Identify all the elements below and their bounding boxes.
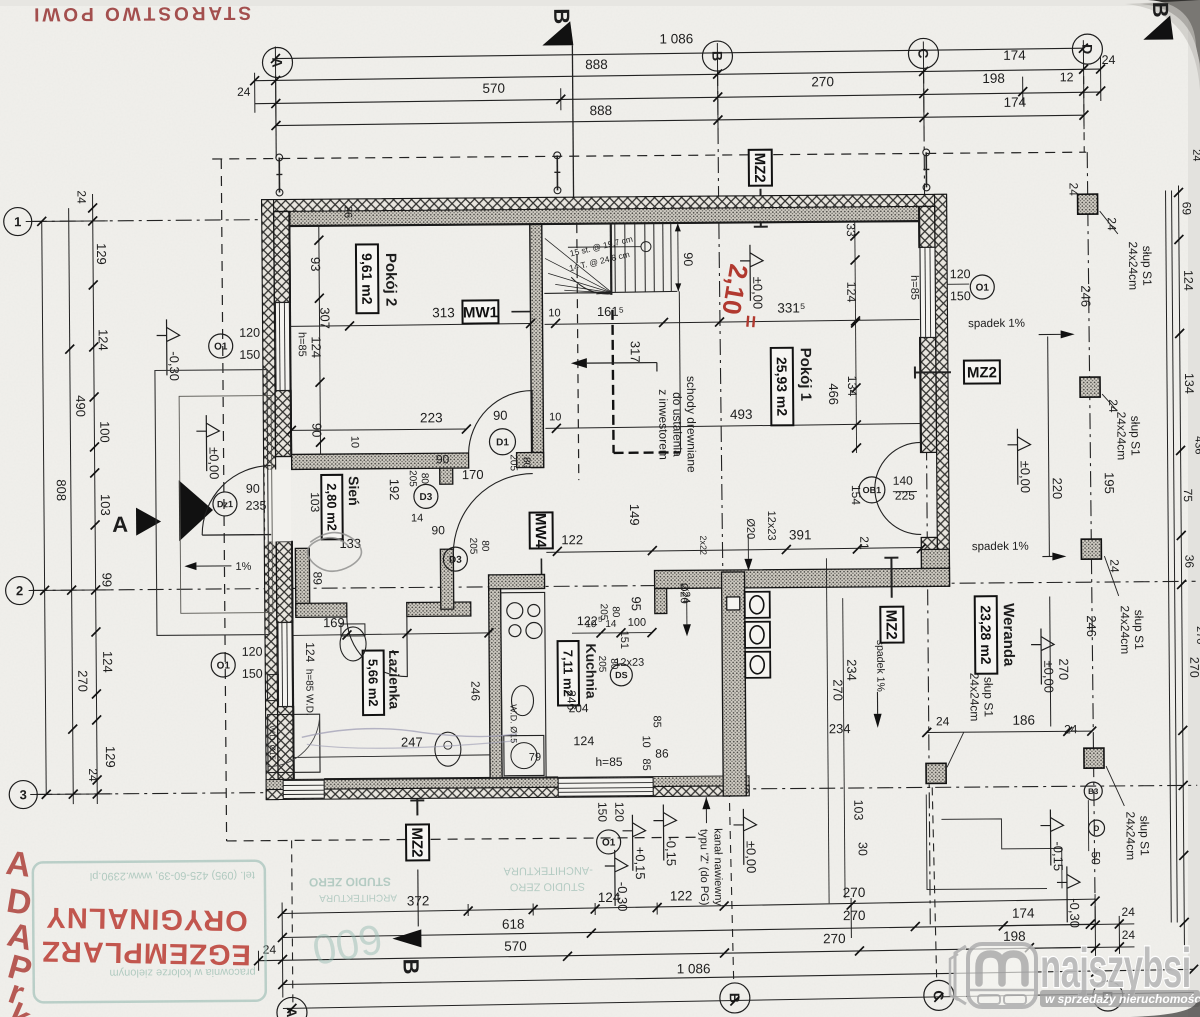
svg-text:±0,00: ±0,00 [744, 841, 759, 874]
svg-text:do ustalenia: do ustalenia [670, 392, 685, 457]
svg-text:Sień: Sień [346, 476, 362, 506]
svg-text:270: 270 [75, 670, 90, 692]
svg-text:85: 85 [640, 758, 652, 770]
svg-text:120: 120 [950, 267, 971, 281]
svg-text:100: 100 [628, 617, 646, 629]
svg-text:124: 124 [844, 282, 858, 303]
svg-text:150: 150 [950, 289, 971, 303]
svg-text:D1: D1 [496, 437, 509, 448]
svg-text:10: 10 [348, 436, 360, 448]
svg-text:75: 75 [1181, 489, 1195, 503]
svg-text:80: 80 [419, 473, 430, 485]
svg-text:MZ2: MZ2 [408, 827, 425, 857]
svg-text:124: 124 [96, 329, 111, 351]
svg-text:50: 50 [1089, 851, 1103, 865]
svg-text:Pokój 2: Pokój 2 [382, 253, 399, 306]
svg-text:tel. (095) 425-60-39, www.239: tel. (095) 425-60-39, www.2390.pl [90, 869, 255, 882]
svg-text:10: 10 [549, 411, 561, 423]
svg-text:124: 124 [573, 734, 594, 748]
svg-text:1%: 1% [235, 561, 251, 573]
svg-text:ORYGINALNY: ORYGINALNY [45, 901, 248, 937]
svg-text:24: 24 [1105, 217, 1119, 231]
svg-text:O1: O1 [602, 837, 616, 848]
svg-text:MW4: MW4 [532, 513, 549, 549]
svg-text:MW1: MW1 [463, 304, 498, 321]
svg-text:14: 14 [605, 619, 617, 630]
svg-text:89: 89 [310, 571, 324, 585]
svg-text:-0,30: -0,30 [167, 351, 182, 381]
svg-text:2,80 m2: 2,80 m2 [324, 483, 339, 531]
svg-text:D: D [1079, 44, 1095, 54]
svg-text:23,28 m2: 23,28 m2 [978, 605, 994, 664]
svg-text:ARCHITEKTURA: ARCHITEKTURA [319, 892, 397, 904]
svg-text:DS: DS [615, 670, 628, 680]
svg-text:149: 149 [627, 504, 642, 526]
svg-text:MZ2: MZ2 [882, 610, 899, 640]
svg-text:Łazienka: Łazienka [386, 650, 402, 709]
svg-text:270: 270 [1194, 626, 1200, 644]
svg-text:MZ2: MZ2 [967, 364, 997, 381]
svg-text:205: 205 [508, 454, 519, 471]
svg-text:Weranda: Weranda [1000, 603, 1018, 667]
svg-text:w sprzedaży nieruchomości: w sprzedaży nieruchomości [1045, 992, 1200, 1006]
svg-text:103: 103 [98, 494, 113, 516]
svg-text:170: 170 [462, 467, 484, 482]
svg-text:124: 124 [100, 651, 115, 673]
svg-text:436: 436 [1192, 436, 1200, 454]
svg-text:±0,00: ±0,00 [1041, 660, 1056, 693]
svg-text:kanał nawiewny: kanał nawiewny [712, 828, 725, 906]
svg-text:A: A [112, 512, 128, 537]
svg-text:W.D. Ø15: W.D. Ø15 [268, 725, 277, 760]
svg-text:174: 174 [1004, 95, 1027, 110]
svg-text:124: 124 [309, 336, 324, 358]
svg-text:169: 169 [323, 615, 345, 630]
svg-text:24: 24 [1066, 183, 1080, 197]
svg-text:Dz1: Dz1 [217, 499, 233, 509]
svg-text:STUDIO ZERO: STUDIO ZERO [309, 875, 391, 890]
svg-text:69: 69 [1180, 202, 1194, 216]
svg-text:Ø20: Ø20 [678, 583, 690, 604]
svg-text:h=85 W.D.: h=85 W.D. [303, 669, 314, 716]
svg-text:12x23: 12x23 [765, 511, 777, 541]
svg-text:808: 808 [54, 479, 69, 501]
svg-text:466: 466 [826, 383, 841, 405]
svg-text:270: 270 [1056, 658, 1071, 680]
svg-text:A: A [269, 57, 285, 67]
svg-text:79: 79 [529, 751, 541, 763]
svg-text:D3: D3 [419, 492, 432, 503]
svg-text:24x24cm: 24x24cm [1114, 411, 1128, 460]
svg-text:B: B [1148, 2, 1173, 18]
svg-text:33: 33 [844, 223, 858, 237]
svg-text:A: A [4, 844, 33, 885]
svg-text:246: 246 [564, 690, 578, 710]
svg-text:150: 150 [239, 348, 260, 362]
svg-text:80: 80 [479, 540, 490, 552]
svg-text:=: = [738, 314, 764, 329]
svg-text:C: C [931, 990, 947, 1000]
svg-text:198: 198 [982, 71, 1005, 86]
svg-text:24x24cm: 24x24cm [1126, 241, 1140, 290]
svg-text:24: 24 [936, 714, 950, 728]
svg-text:spadek 1%: spadek 1% [968, 318, 1025, 330]
svg-text:OB1: OB1 [863, 485, 882, 495]
svg-text:90: 90 [681, 252, 695, 266]
svg-text:24x24cm: 24x24cm [967, 673, 981, 722]
svg-text:100: 100 [97, 421, 112, 443]
svg-text:typu 'Z' (do PG): typu 'Z' (do PG) [698, 829, 711, 905]
svg-text:h=85: h=85 [296, 332, 308, 357]
svg-text:36: 36 [1182, 555, 1196, 569]
svg-text:235: 235 [245, 499, 266, 513]
svg-text:O1: O1 [217, 661, 231, 672]
svg-text:120: 120 [242, 645, 263, 659]
svg-text:270: 270 [1187, 657, 1200, 678]
svg-text:490: 490 [73, 395, 88, 417]
svg-text:80: 80 [610, 606, 621, 618]
svg-text:słup S1: słup S1 [1137, 816, 1151, 856]
svg-text:24: 24 [86, 768, 100, 782]
svg-text:888: 888 [590, 103, 613, 118]
svg-text:spadek 1%: spadek 1% [972, 541, 1029, 553]
svg-text:1: 1 [14, 214, 21, 229]
svg-text:21: 21 [857, 536, 871, 550]
svg-text:10: 10 [640, 735, 652, 747]
svg-text:słup S1: słup S1 [1128, 416, 1142, 456]
svg-text:570: 570 [482, 81, 505, 96]
svg-text:W.D. Ø15: W.D. Ø15 [509, 704, 519, 743]
svg-text:D: D [1094, 824, 1100, 833]
svg-text:słup S1: słup S1 [1140, 246, 1154, 286]
svg-text:3: 3 [20, 787, 27, 802]
svg-text:220: 220 [1050, 477, 1065, 499]
svg-text:493: 493 [730, 407, 753, 422]
svg-text:schody drewniane: schody drewniane [684, 376, 699, 473]
svg-text:270: 270 [823, 931, 846, 946]
svg-text:10: 10 [548, 307, 560, 319]
svg-text:570: 570 [504, 939, 527, 954]
svg-text:124: 124 [303, 642, 317, 662]
svg-text:24: 24 [1101, 53, 1115, 67]
svg-text:2x22: 2x22 [698, 535, 708, 555]
svg-text:270: 270 [811, 74, 834, 89]
svg-text:24: 24 [1121, 905, 1135, 919]
svg-text:1 086: 1 086 [659, 31, 693, 46]
svg-text:C: C [915, 48, 931, 58]
svg-text:najszybsi: najszybsi [1040, 937, 1191, 1000]
svg-text:120: 120 [239, 326, 260, 340]
svg-text:O1: O1 [976, 283, 990, 294]
svg-text:246: 246 [1084, 615, 1099, 637]
svg-text:2: 2 [16, 583, 23, 598]
svg-text:888: 888 [585, 57, 608, 72]
svg-text:-0,30: -0,30 [1067, 898, 1082, 928]
svg-text:618: 618 [502, 917, 525, 932]
svg-text:150: 150 [242, 667, 263, 681]
svg-text:225: 225 [895, 489, 915, 503]
svg-text:120: 120 [612, 802, 626, 822]
svg-text:205: 205 [467, 538, 478, 555]
svg-text:10: 10 [585, 619, 597, 630]
svg-text:30: 30 [856, 842, 870, 856]
svg-text:192: 192 [387, 479, 402, 501]
svg-text:B: B [709, 51, 725, 61]
svg-text:391: 391 [789, 527, 812, 542]
svg-text:24: 24 [1190, 149, 1200, 161]
svg-text:246: 246 [1078, 285, 1093, 307]
svg-text:-0,15: -0,15 [664, 836, 679, 866]
svg-text:99: 99 [99, 573, 114, 588]
svg-text:14: 14 [411, 512, 423, 524]
svg-text:z inwestorem: z inwestorem [656, 389, 671, 460]
svg-text:Ø20: Ø20 [744, 518, 756, 539]
svg-text:198: 198 [1003, 929, 1026, 944]
svg-text:205: 205 [596, 656, 607, 673]
svg-text:±0,00: ±0,00 [1018, 461, 1033, 494]
svg-text:85: 85 [651, 715, 663, 727]
svg-text:B: B [399, 958, 424, 974]
svg-text:O1: O1 [214, 342, 228, 353]
svg-text:313: 313 [432, 305, 455, 320]
svg-text:161⁵: 161⁵ [597, 304, 624, 319]
svg-text:90: 90 [431, 523, 445, 537]
svg-text:-0,30: -0,30 [615, 882, 630, 912]
svg-text:154: 154 [849, 485, 863, 505]
svg-text:134: 134 [845, 376, 859, 397]
svg-text:24x24cm: 24x24cm [1123, 811, 1137, 860]
svg-text:5,66 m2: 5,66 m2 [365, 659, 380, 707]
svg-text:103: 103 [851, 799, 865, 820]
svg-text:270: 270 [843, 885, 866, 900]
svg-text:331⁵: 331⁵ [777, 300, 805, 315]
svg-text:93: 93 [308, 257, 323, 272]
svg-text:122: 122 [561, 532, 583, 547]
svg-text:12: 12 [1060, 70, 1074, 84]
svg-text:317: 317 [628, 341, 643, 363]
svg-text:25,93 m2: 25,93 m2 [774, 357, 790, 416]
svg-text:Pokój 1: Pokój 1 [797, 348, 814, 401]
svg-text:234: 234 [829, 721, 851, 736]
svg-text:246: 246 [468, 681, 482, 701]
svg-text:86: 86 [655, 746, 669, 760]
svg-text:24x24cm: 24x24cm [1118, 605, 1132, 654]
svg-text:EGZEMPLARZ: EGZEMPLARZ [41, 935, 251, 971]
svg-text:STAROSTWO POWI: STAROSTWO POWI [31, 2, 251, 25]
svg-text:24: 24 [237, 85, 251, 99]
svg-text:150: 150 [595, 802, 609, 822]
svg-text:26: 26 [342, 206, 354, 218]
svg-text:90: 90 [246, 482, 260, 496]
svg-text:129: 129 [94, 243, 109, 265]
svg-text:140: 140 [893, 474, 913, 488]
svg-text:90: 90 [493, 408, 508, 423]
svg-text:129: 129 [103, 746, 118, 768]
svg-text:80: 80 [521, 457, 532, 469]
svg-text:24: 24 [74, 190, 88, 204]
svg-text:STUDIO ZERO: STUDIO ZERO [509, 880, 585, 893]
svg-text:słup S1: słup S1 [981, 677, 995, 717]
svg-text:270: 270 [843, 908, 866, 923]
svg-text:174: 174 [1003, 48, 1026, 63]
svg-text:186: 186 [1012, 713, 1035, 728]
svg-text:+0,15: +0,15 [633, 847, 648, 880]
svg-text:słup S1: słup S1 [1132, 610, 1146, 650]
svg-text:205: 205 [407, 470, 418, 487]
svg-text:MZ2: MZ2 [751, 153, 768, 183]
svg-text:D3: D3 [449, 555, 462, 566]
svg-text:9,61 m2: 9,61 m2 [359, 253, 375, 305]
svg-text:103: 103 [308, 492, 322, 512]
svg-text:h=85: h=85 [595, 755, 622, 769]
svg-text:spadek 1%: spadek 1% [874, 640, 886, 692]
svg-text:122: 122 [670, 888, 693, 903]
svg-text:B: B [549, 8, 574, 24]
svg-text:124: 124 [1181, 270, 1195, 291]
svg-text:134: 134 [1182, 373, 1196, 394]
svg-text:B3: B3 [1088, 787, 1099, 796]
svg-text:-ANCHITEKTURA: -ANCHITEKTURA [503, 864, 593, 877]
svg-text:1 086: 1 086 [677, 961, 711, 976]
svg-text:90: 90 [436, 452, 450, 466]
svg-text:h=85: h=85 [908, 275, 920, 300]
svg-text:234: 234 [844, 659, 859, 681]
svg-text:223: 223 [420, 410, 443, 425]
svg-text:174: 174 [1012, 906, 1035, 921]
svg-text:95: 95 [629, 596, 644, 611]
svg-text:195: 195 [1102, 472, 1117, 494]
svg-text:-0,15: -0,15 [1051, 841, 1066, 871]
svg-text:±0,00: ±0,00 [207, 447, 222, 480]
